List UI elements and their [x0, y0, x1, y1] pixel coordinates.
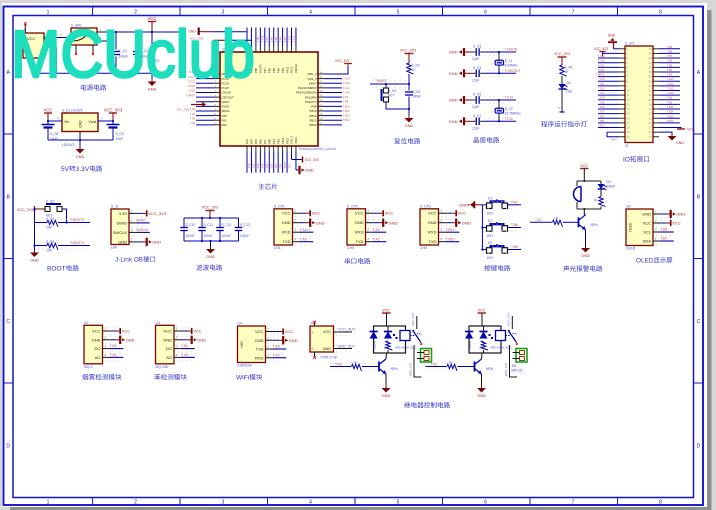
wire R2 to node: [408, 74, 410, 84]
svg-text:T.A1: T.A1: [110, 353, 117, 357]
svg-text:16: 16: [627, 116, 630, 120]
svg-text:5: 5: [397, 10, 400, 16]
wire C2 vertical: [136, 32, 138, 50]
svg-text:26: 26: [649, 112, 652, 116]
label alarm circuit: [563, 265, 569, 271]
svg-text:31: 31: [649, 89, 652, 93]
power GND port: [151, 73, 153, 81]
filter top rail: [184, 217, 239, 219]
filter junction dots: [201, 217, 203, 219]
svg-text:T.A15: T.A15: [288, 35, 291, 42]
capacitor S_C10 100nF: [183, 218, 185, 227]
svg-text:1: 1: [176, 327, 178, 331]
svg-text:37: 37: [649, 61, 652, 65]
svg-text:200MW: 200MW: [373, 340, 376, 349]
svg-text:CH1: CH1: [274, 246, 281, 250]
no-connect cross on J1: [24, 22, 27, 25]
svg-text:PB14: PB14: [309, 114, 316, 118]
alarm top rail: [577, 180, 601, 182]
svg-text:SDA: SDA: [643, 239, 652, 244]
svg-text:VDD_2: VDD_2: [307, 72, 317, 76]
relay base resistor 1: [332, 362, 376, 364]
svg-text:CH0: CH0: [347, 246, 354, 250]
svg-text:GND: GND: [676, 212, 685, 217]
svg-text:ESP8266: ESP8266: [238, 364, 252, 368]
svg-text:GND: GND: [305, 168, 314, 173]
label program indicator: [541, 121, 547, 127]
svg-text:OLED: OLED: [626, 247, 636, 251]
svg-text:MCUclub: MCUclub: [11, 18, 255, 92]
svg-text:T.B2: T.B2: [279, 163, 282, 168]
svg-text:T.B10: T.B10: [446, 237, 455, 241]
svg-text:OSCOUT: OSCOUT: [222, 95, 235, 99]
svg-text:T.A4: T.A4: [599, 97, 605, 100]
svg-text:B1: B1: [311, 346, 315, 350]
svg-text:SWIO: SWIO: [136, 219, 145, 223]
regulator gnd pin wire: [79, 132, 81, 141]
svg-text:8.00MHz: 8.00MHz: [505, 64, 519, 68]
svg-text:3: 3: [440, 228, 442, 232]
svg-text:GND: GND: [79, 120, 83, 128]
svg-text:GND: GND: [76, 155, 85, 159]
svg-text:Vout: Vout: [88, 120, 97, 124]
svg-text:LD03V3: LD03V3: [62, 143, 74, 147]
svg-text:1K: 1K: [383, 346, 387, 349]
svg-text:10: 10: [627, 89, 630, 93]
capacitor E_C2 100uF: [133, 51, 141, 53]
crystal Y1 8.00MHz: [498, 52, 500, 56]
svg-text:T.C14: T.C14: [598, 55, 605, 58]
svg-text:PA14/USBDOM: PA14/USBDOM: [296, 91, 317, 95]
svg-text:12pF: 12pF: [472, 57, 480, 61]
svg-text:T.A5: T.A5: [599, 101, 605, 104]
wire key to boot0 node: [62, 209, 67, 223]
resistor S_R4 10K: [35, 222, 48, 224]
svg-text:T.C15: T.C15: [598, 60, 605, 63]
svg-text:PA3: PA3: [245, 139, 249, 144]
label relay control circuit: [404, 402, 410, 408]
svg-text:PB7: PB7: [263, 68, 267, 73]
svg-text:T.B14: T.B14: [667, 111, 674, 114]
svg-text:VCC_OUT: VCC_OUT: [338, 328, 356, 332]
svg-text:MQ-2: MQ-2: [84, 365, 93, 369]
svg-text:36: 36: [649, 65, 652, 69]
alarm collector wire: [583, 209, 585, 214]
svg-text:VCC: VCC: [643, 221, 652, 226]
svg-text:28: 28: [649, 102, 652, 106]
svg-text:TYPE-C-2P: TYPE-C-2P: [320, 356, 338, 360]
svg-text:T.BOOT0: T.BOOT0: [70, 218, 84, 222]
svg-text:1K: 1K: [479, 346, 483, 349]
J1 bottom pin: [33, 58, 35, 64]
svg-text:K2: K2: [488, 219, 492, 223]
wire J1 gnd to bottom rail: [52, 47, 56, 73]
switch pins bottom: [75, 45, 77, 53]
svg-text:VSSA: VSSA: [222, 105, 230, 109]
relay contacts 2: [506, 335, 511, 337]
regulator U1 LD03V3: [62, 113, 98, 132]
svg-text:2: 2: [267, 336, 269, 340]
relay flyback diode 2: [465, 332, 473, 339]
capacitor S_C6 12pF: [475, 96, 477, 104]
svg-text:T.A10: T.A10: [300, 228, 309, 232]
svg-text:NPN: NPN: [591, 223, 599, 227]
type-c no connect top: [313, 321, 316, 324]
svg-text:T.B7: T.B7: [660, 237, 667, 241]
svg-text:1: 1: [47, 10, 50, 16]
svg-text:T.C14: T.C14: [505, 96, 514, 100]
svg-text:6: 6: [484, 10, 487, 16]
power jack J1: [23, 33, 44, 58]
relay transistor Q2 NPN: [378, 362, 380, 372]
svg-text:14: 14: [627, 107, 630, 111]
node top rail / C1: [115, 31, 117, 33]
svg-text:SRD-5VDC-SL-C: SRD-5VDC-SL-C: [491, 345, 513, 349]
svg-text:23: 23: [649, 126, 652, 130]
svg-text:T.A7: T.A7: [535, 218, 542, 222]
svg-text:XWCLK: XWCLK: [294, 64, 298, 73]
svg-text:T.A10: T.A10: [343, 90, 350, 94]
svg-text:T.B5: T.B5: [275, 37, 278, 42]
wire Vout: [98, 120, 113, 122]
wire input cap: [47, 121, 49, 125]
svg-text:3: 3: [176, 345, 178, 349]
wire vcc to key: [35, 208, 46, 210]
label filter circuit: [196, 264, 202, 270]
svg-text:PA7: PA7: [263, 139, 267, 144]
svg-text:S_C13: S_C13: [240, 223, 250, 227]
jlink connector S_J1: [111, 209, 129, 245]
svg-text:S_J1: S_J1: [111, 205, 119, 209]
svg-text:2: 2: [176, 336, 178, 340]
svg-text:T.B7: T.B7: [266, 37, 269, 42]
svg-text:PB5: PB5: [272, 68, 276, 73]
svg-text:2: 2: [101, 117, 103, 121]
svg-text:GND: GND: [382, 394, 391, 398]
alarm GND: [581, 248, 590, 253]
svg-text:S_C12: S_C12: [222, 223, 232, 227]
crystal gnd top 1: [463, 48, 465, 56]
relay coil 1: [400, 331, 410, 341]
svg-text:PA0: PA0: [222, 114, 228, 118]
svg-text:U6: U6: [626, 205, 630, 209]
io row18 vcc: [659, 128, 681, 129]
svg-text:T.OS2: T.OS2: [598, 69, 606, 72]
svg-text:T.A9: T.A9: [667, 97, 673, 100]
relay contacts 1: [410, 335, 415, 337]
svg-text:3.3V: 3.3V: [119, 211, 128, 216]
smoke sensor U2 MQ-2: [84, 325, 103, 364]
svg-text:GND: GND: [608, 34, 616, 38]
svg-text:T.B12: T.B12: [667, 120, 674, 123]
svg-text:T.B6: T.B6: [667, 60, 673, 63]
svg-text:S_CP1: S_CP1: [274, 204, 285, 208]
svg-text:25: 25: [649, 116, 652, 120]
svg-text:T.B8: T.B8: [667, 50, 673, 53]
transistor Q1 NPN: [578, 217, 580, 227]
MCUclub watermark: [11, 18, 255, 92]
svg-text:PB2: PB2: [276, 139, 280, 144]
svg-text:12pF: 12pF: [472, 126, 480, 130]
svg-text:T.BT0: T.BT0: [262, 35, 265, 42]
svg-text:T.A6: T.A6: [599, 106, 605, 109]
capacitor S_C9 10uF: [107, 124, 120, 126]
svg-text:S_C11: S_C11: [204, 223, 214, 227]
wire crystal rail top 2: [464, 99, 473, 101]
type-c no connect bottom: [313, 356, 316, 359]
mcu bottom gnd port: [296, 169, 300, 171]
label crystal circuit: [474, 137, 479, 143]
frame column ticks top: [92, 7, 94, 16]
net GND_OUT: [336, 344, 352, 346]
svg-text:DO: DO: [166, 346, 172, 351]
relay emitter gnd 2: [481, 374, 483, 388]
svg-text:1: 1: [104, 327, 106, 331]
svg-text:RXD: RXD: [428, 230, 437, 235]
frame row ticks left: [4, 133, 14, 135]
svg-text:RXD: RXD: [355, 230, 364, 235]
svg-text:VCC: VCC: [285, 329, 294, 334]
svg-text:5V: 5V: [61, 166, 70, 173]
serial connector S_CP3: [420, 209, 439, 245]
svg-text:T.B7: T.B7: [667, 55, 673, 58]
svg-text:Vin: Vin: [64, 120, 69, 124]
svg-text:T.B12: T.B12: [343, 118, 350, 122]
alarm emitter wire: [585, 230, 587, 248]
svg-text:S_C9: S_C9: [116, 132, 124, 136]
svg-text:S_CP2: S_CP2: [347, 204, 358, 208]
svg-text:VCC: VCC: [382, 309, 390, 313]
relay out wires 1: [416, 316, 418, 329]
svg-text:T.A3: T.A3: [248, 163, 251, 168]
label serial circuit: [345, 258, 350, 264]
mcu U0 STM32 body: [220, 52, 318, 146]
resistor alarm vertical: [600, 189, 602, 196]
svg-text:3: 3: [57, 117, 59, 121]
svg-text:GND: GND: [282, 220, 291, 225]
wire LED down: [561, 89, 563, 112]
svg-text:PB13: PB13: [309, 118, 316, 122]
svg-text:T.B3: T.B3: [667, 74, 673, 77]
svg-text:VSS_2: VSS_2: [308, 77, 317, 81]
svg-text:T.B10: T.B10: [598, 125, 605, 128]
svg-text:GND_OUT: GND_OUT: [338, 345, 356, 349]
wire diode to bottom rail: [151, 64, 153, 73]
svg-text:PA1: PA1: [222, 118, 228, 122]
keys left rail: [481, 205, 483, 250]
resistor S_R2 1K: [407, 63, 414, 74]
svg-text:PB1: PB1: [272, 139, 276, 144]
svg-text:AO: AO: [95, 355, 101, 360]
svg-text:VCC: VCC: [687, 128, 695, 132]
svg-text:U2: U2: [84, 321, 88, 325]
svg-text:VCC: VCC: [255, 329, 264, 334]
svg-text:S_S2: S_S2: [46, 200, 54, 204]
svg-text:PB3: PB3: [281, 68, 285, 73]
svg-text:GND: GND: [449, 98, 458, 103]
svg-text:VCC_3V3: VCC_3V3: [104, 108, 123, 113]
resistor S_R5 10K: [35, 245, 48, 247]
svg-text:GND: GND: [126, 337, 135, 342]
svg-text:AO: AO: [166, 355, 172, 360]
filter GND: [210, 241, 212, 249]
io rows 19-20 left stub: [607, 131, 619, 133]
svg-text:T.A10: T.A10: [667, 92, 674, 95]
mcu left pins: [196, 73, 214, 75]
svg-text:S_Y2: S_Y2: [505, 107, 513, 111]
svg-text:T.A15: T.A15: [667, 78, 674, 81]
svg-text:Link: Link: [111, 246, 118, 250]
svg-text:12pF: 12pF: [472, 78, 480, 82]
mcu VCC_3V3 net left: [191, 103, 205, 107]
svg-text:SWIO: SWIO: [309, 81, 317, 85]
label key circuit: [484, 265, 490, 271]
label main chip: [258, 183, 264, 189]
svg-text:JD1: JD1: [511, 364, 517, 368]
svg-text:S_C8: S_C8: [50, 132, 58, 136]
svg-text:3: 3: [131, 228, 133, 232]
net VCC_OUT: [336, 328, 352, 330]
boot GND: [34, 246, 36, 253]
svg-text:VCC_3V3: VCC_3V3: [305, 158, 319, 162]
svg-text:VCC_OUT: VCC_OUT: [411, 312, 415, 326]
svg-text:21: 21: [649, 135, 652, 139]
svg-text:1: 1: [440, 209, 442, 213]
svg-text:KEY: KEY: [487, 234, 494, 238]
svg-text:3: 3: [104, 345, 106, 349]
svg-text:GND: GND: [459, 203, 468, 207]
svg-text:1: 1: [367, 209, 369, 213]
svg-text:SWCLK: SWCLK: [136, 228, 149, 232]
svg-text:PA4: PA4: [250, 139, 254, 144]
svg-text:10K: 10K: [46, 249, 53, 253]
svg-text:100nF: 100nF: [240, 234, 249, 238]
svg-text:CH3: CH3: [420, 246, 427, 250]
svg-text:SWIO: SWIO: [116, 220, 127, 225]
svg-text:34: 34: [649, 75, 652, 79]
svg-text:3: 3: [222, 10, 225, 16]
svg-text:T.OSCOUT: T.OSCOUT: [505, 69, 521, 73]
svg-text:T.A1: T.A1: [431, 362, 438, 366]
switch S_SW1: [71, 28, 97, 45]
svg-text:GND: GND: [581, 254, 590, 258]
svg-text:J-Link OB: J-Link OB: [115, 257, 143, 264]
svg-text:T.B1: T.B1: [181, 344, 188, 348]
svg-text:8: 8: [659, 10, 662, 16]
led D4: [600, 181, 602, 184]
svg-text:VCC: VCC: [282, 211, 291, 216]
svg-text:BOOT0: BOOT0: [259, 64, 263, 73]
svg-text:PA10/TX: PA10/TX: [305, 100, 316, 104]
svg-text:VCC_3V3: VCC_3V3: [202, 206, 218, 210]
svg-text:GND_OUT: GND_OUT: [409, 362, 413, 376]
svg-text:PA11/RX: PA11/RX: [305, 95, 317, 99]
svg-text:T.A9: T.A9: [343, 95, 349, 99]
relay led resistor 1: [386, 341, 393, 350]
svg-text:100nF: 100nF: [186, 234, 195, 238]
svg-text:4: 4: [309, 10, 312, 16]
svg-text:GND: GND: [255, 338, 264, 343]
alarm bottom rail: [577, 208, 601, 210]
VCC port regulator input: [44, 112, 52, 114]
svg-text:D: D: [697, 444, 701, 450]
svg-text:T.B5: T.B5: [511, 245, 518, 249]
relay base resistor 2: [428, 362, 472, 364]
node top rail / C2: [136, 31, 138, 33]
svg-text:GND: GND: [316, 220, 325, 225]
svg-text:33: 33: [649, 79, 652, 83]
svg-text:12: 12: [627, 98, 630, 102]
svg-text:T.B3: T.B3: [284, 37, 287, 42]
svg-text:100nF: 100nF: [222, 234, 231, 238]
relay led resistor 2: [481, 341, 488, 350]
svg-text:29: 29: [649, 98, 652, 102]
svg-text:T.NRST: T.NRST: [375, 79, 387, 83]
svg-text:VCC: VCC: [122, 329, 131, 334]
svg-text:T.A2: T.A2: [373, 237, 380, 241]
svg-text:4: 4: [655, 237, 657, 241]
svg-text:20: 20: [627, 135, 630, 139]
svg-text:4: 4: [104, 353, 106, 357]
svg-text:PA6: PA6: [259, 139, 263, 144]
svg-text:T.B13: T.B13: [667, 115, 674, 118]
svg-text:6: 6: [484, 500, 487, 506]
svg-text:1: 1: [655, 210, 657, 214]
svg-text:GND: GND: [449, 119, 458, 124]
svg-text:T.A2: T.A2: [273, 353, 280, 357]
svg-text:T.B1: T.B1: [275, 163, 278, 168]
svg-text:40: 40: [649, 47, 652, 51]
wire C1 vertical: [115, 32, 117, 50]
svg-text:2: 2: [367, 219, 369, 223]
svg-text:T.A11: T.A11: [667, 87, 674, 90]
wire crystal rail top 1: [464, 51, 473, 53]
io row19 gnd: [659, 132, 672, 136]
svg-text:4: 4: [309, 500, 312, 506]
power bottom rail: [34, 72, 161, 74]
frame row ticks right: [694, 133, 704, 135]
svg-text:30: 30: [649, 93, 652, 97]
svg-text:GND: GND: [118, 239, 127, 244]
svg-text:GND: GND: [163, 337, 172, 342]
svg-text:3: 3: [267, 345, 269, 349]
resistor S_R1 1K: [560, 65, 567, 76]
svg-text:KEY: KEY: [487, 256, 494, 260]
svg-text:T.B14: T.B14: [343, 109, 350, 113]
svg-text:VDD1: VDD1: [294, 137, 298, 144]
svg-text:S_JP1: S_JP1: [625, 42, 635, 46]
svg-text:T.A0: T.A0: [599, 78, 605, 81]
page shadow bottom: [10, 507, 712, 510]
svg-text:T.B15: T.B15: [667, 106, 674, 109]
svg-text:100nF: 100nF: [412, 95, 421, 99]
svg-text:18: 18: [627, 126, 630, 130]
svg-text:2: 2: [134, 10, 137, 16]
svg-text:VCC_3V3: VCC_3V3: [148, 211, 167, 216]
svg-text:DO: DO: [95, 346, 101, 351]
svg-text:T.C15: T.C15: [505, 117, 514, 121]
net T.BOOT0: [38, 218, 88, 220]
svg-text:7: 7: [572, 10, 575, 16]
key S_S3: [385, 84, 387, 88]
svg-text:27: 27: [649, 107, 652, 111]
svg-text:K3: K3: [488, 241, 492, 245]
svg-text:T.A3: T.A3: [273, 345, 280, 349]
type-c connector J2: [310, 326, 334, 352]
crystal gnd top 2: [463, 96, 465, 104]
svg-text:T.BOOT1: T.BOOT1: [70, 241, 84, 245]
svg-text:D2: D2: [567, 81, 571, 85]
